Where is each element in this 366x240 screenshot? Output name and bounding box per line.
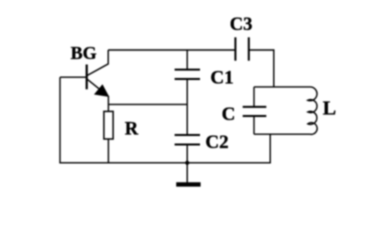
svg-text:C: C [222,104,236,125]
svg-text:BG: BG [71,43,97,63]
svg-text:C2: C2 [205,132,228,153]
svg-text:C1: C1 [210,68,233,89]
svg-text:R: R [125,119,139,139]
svg-text:L: L [323,98,336,120]
svg-text:C3: C3 [230,15,253,35]
